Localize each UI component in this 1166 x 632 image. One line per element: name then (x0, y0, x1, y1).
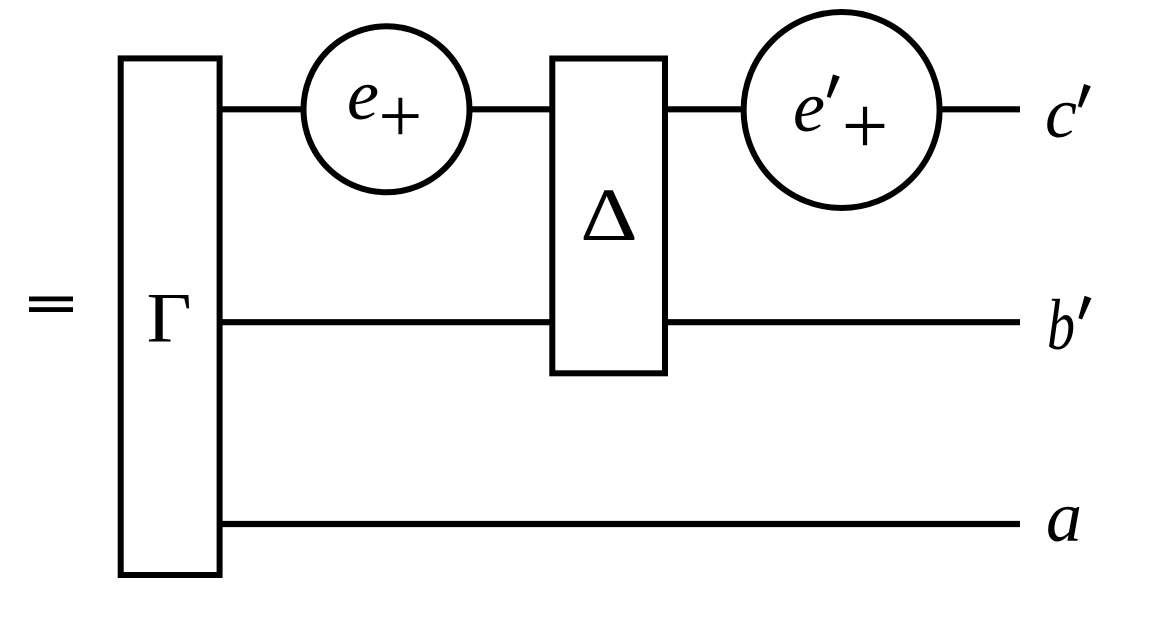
svg-text:c: c (1045, 73, 1077, 153)
box Delta (552, 59, 665, 374)
svg-text:Δ: Δ (580, 174, 638, 257)
label e'+ (793, 67, 888, 171)
label e+ (347, 55, 422, 159)
box Gamma (121, 58, 220, 575)
svg-text:+: + (842, 79, 889, 171)
wire c' (top) (215, 106, 1020, 112)
svg-text:+: + (378, 72, 422, 159)
node e+ (304, 26, 470, 192)
svg-text:Γ: Γ (147, 280, 192, 358)
svg-text:b: b (1047, 285, 1075, 365)
wire b' (middle) (215, 319, 1020, 325)
wire label b' (1047, 285, 1091, 365)
svg-text:e: e (347, 55, 379, 135)
svg-text:a: a (1046, 477, 1082, 557)
equals sign (29, 297, 73, 313)
wire a (bottom) (215, 521, 1020, 527)
wire label c' (1045, 73, 1091, 153)
svg-text:e: e (793, 67, 825, 147)
node e'+ (744, 12, 940, 208)
